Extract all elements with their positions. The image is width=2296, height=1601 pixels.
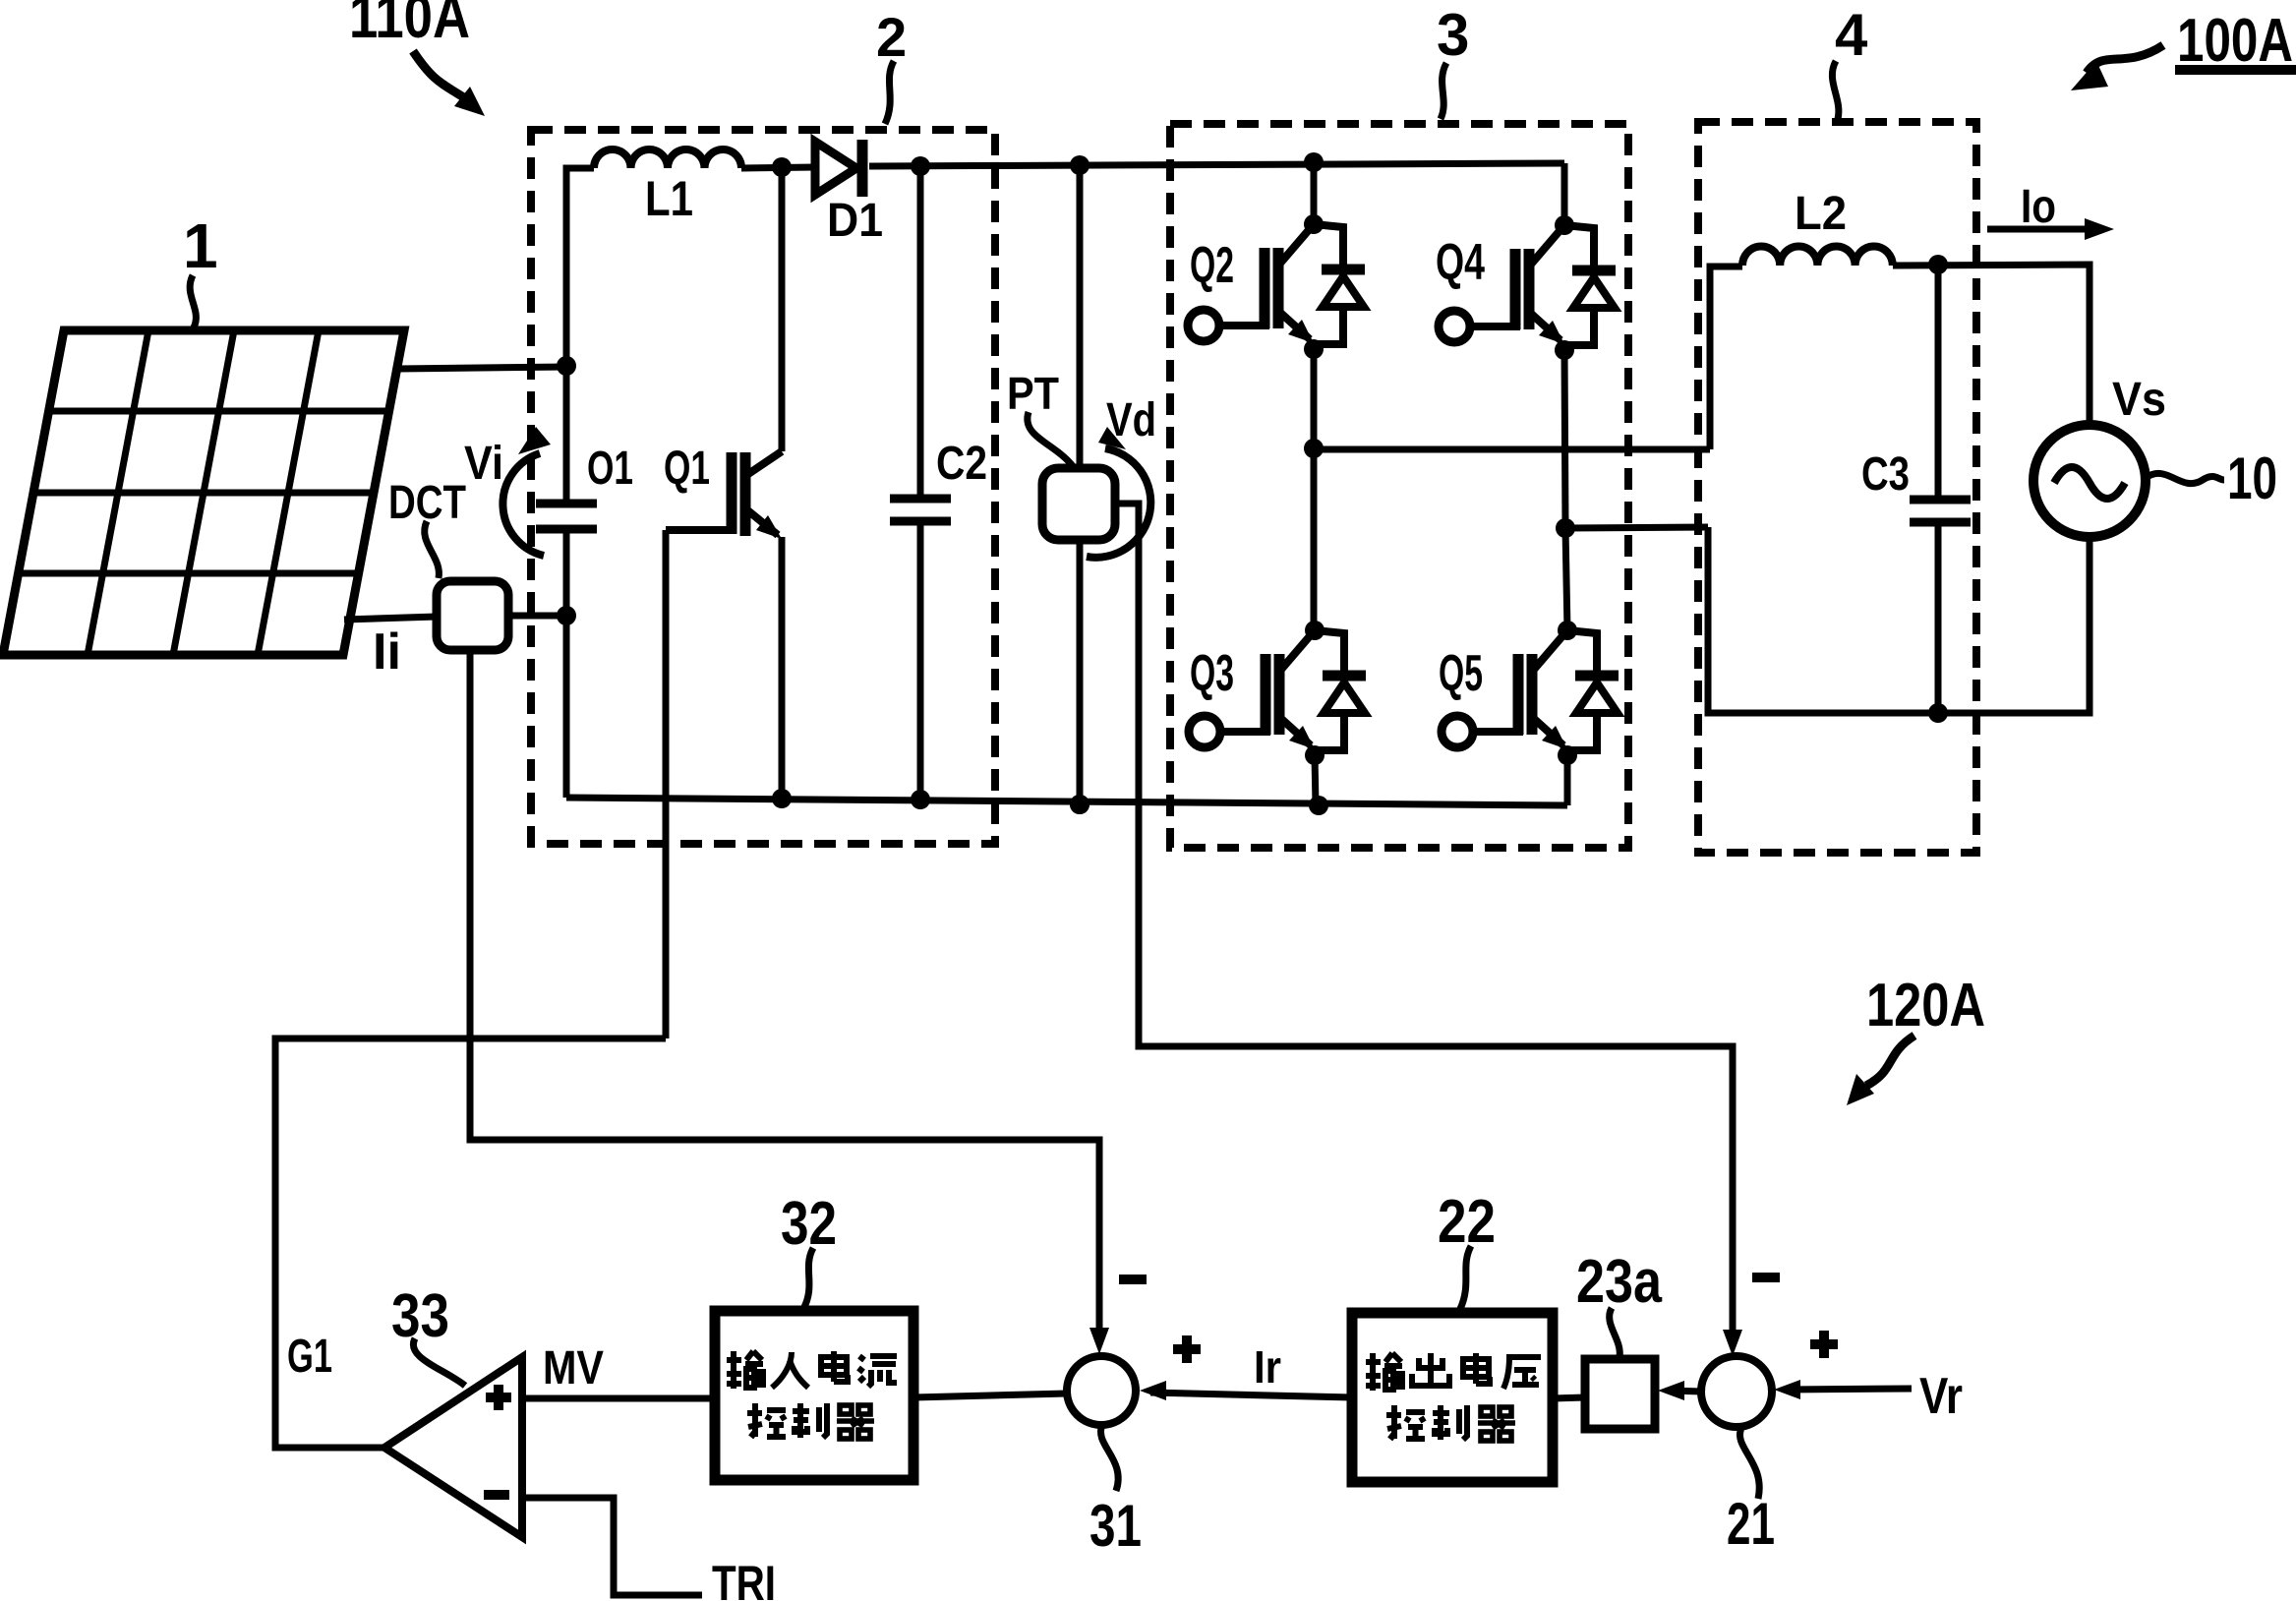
svg-text:MV: MV [543, 1342, 604, 1394]
svg-text:Vr: Vr [1919, 1368, 1963, 1425]
svg-text:DCT: DCT [388, 477, 466, 529]
svg-text:Vd: Vd [1106, 394, 1156, 446]
svg-text:Ir: Ir [1254, 1341, 1281, 1393]
svg-text:PT: PT [1007, 368, 1059, 419]
svg-text:Q3: Q3 [1190, 645, 1234, 702]
svg-text:3: 3 [1437, 2, 1469, 68]
svg-text:Q5: Q5 [1439, 645, 1483, 702]
svg-text:L2: L2 [1795, 188, 1847, 240]
svg-text:2: 2 [876, 6, 907, 68]
svg-text:31: 31 [1089, 1493, 1142, 1559]
svg-text:100A: 100A [2177, 7, 2293, 75]
svg-text:Vi: Vi [464, 438, 503, 490]
svg-text:22: 22 [1438, 1188, 1496, 1256]
svg-text:TRI: TRI [712, 1556, 776, 1601]
svg-text:1: 1 [183, 210, 218, 281]
svg-text:L1: L1 [645, 171, 693, 226]
svg-text:D1: D1 [827, 195, 883, 247]
svg-text:Q2: Q2 [1190, 237, 1234, 294]
svg-text:23a: 23a [1576, 1248, 1662, 1316]
svg-text:C2: C2 [936, 438, 987, 490]
svg-text:Vs: Vs [2112, 374, 2166, 426]
svg-text:32: 32 [781, 1190, 837, 1258]
svg-text:33: 33 [391, 1282, 449, 1350]
svg-text:120A: 120A [1866, 972, 1985, 1039]
svg-text:Q1: Q1 [664, 443, 710, 495]
svg-text:Io: Io [2021, 181, 2056, 233]
svg-text:110A: 110A [349, 0, 470, 51]
svg-text:21: 21 [1727, 1491, 1775, 1557]
svg-text:G1: G1 [287, 1331, 332, 1383]
svg-text:C3: C3 [1861, 448, 1910, 501]
svg-text:Ii: Ii [373, 623, 401, 681]
svg-text:10: 10 [2227, 445, 2277, 511]
svg-text:Q4: Q4 [1436, 234, 1485, 291]
svg-text:4: 4 [1835, 2, 1868, 68]
svg-text:O1: O1 [587, 443, 633, 495]
